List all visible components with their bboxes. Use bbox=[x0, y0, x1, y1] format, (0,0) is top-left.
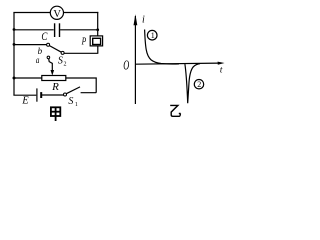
graph x-axis (t) with arrowhead bbox=[135, 62, 225, 75]
svg-text:R: R bbox=[51, 81, 59, 93]
wire: battery to S1 bbox=[42, 94, 64, 96]
svg-text:t: t bbox=[220, 64, 223, 74]
curve 2 (discharge current spike, negative) bbox=[185, 64, 200, 104]
graph y-axis (i) with arrowhead bbox=[134, 14, 146, 104]
wire: contact a lead down to rheostat wiper (arrow) bbox=[49, 59, 54, 76]
switch S1 bbox=[64, 87, 81, 108]
wire: top rail left segment bbox=[13, 12, 50, 14]
wire: capacitor row right bbox=[60, 29, 98, 31]
svg-text:E: E bbox=[21, 95, 29, 106]
wire: S2 pole to P box bottom bbox=[64, 46, 98, 54]
wire: bottom left (corner to battery) bbox=[13, 94, 36, 96]
wire: right vertical rail (top corner to P box) bbox=[97, 12, 99, 36]
wire: top rail right segment bbox=[64, 12, 99, 14]
label 甲 (drawn glyph) bbox=[51, 107, 60, 121]
wire: R row right, down right rail to S1 row bbox=[66, 77, 96, 92]
resistor P (boxed element) bbox=[81, 36, 103, 47]
svg-text:S: S bbox=[68, 96, 73, 107]
svg-text:i: i bbox=[142, 14, 145, 25]
capacitor C bbox=[41, 23, 59, 43]
label circled 1 bbox=[147, 30, 157, 40]
wire: capacitor row left bbox=[14, 29, 54, 31]
svg-text:1: 1 bbox=[75, 102, 78, 108]
svg-text:C: C bbox=[41, 31, 47, 43]
wire: R row left bbox=[14, 77, 42, 79]
junction: left rail / b row bbox=[13, 43, 16, 46]
svg-text:O: O bbox=[123, 58, 129, 73]
label 乙 (drawn glyph) bbox=[170, 105, 180, 116]
wire: b row (left rail to contact b) bbox=[14, 44, 47, 46]
svg-text:V: V bbox=[53, 9, 61, 20]
voltmeter V bbox=[50, 6, 63, 20]
svg-text:S: S bbox=[58, 55, 63, 66]
svg-text:2: 2 bbox=[64, 61, 67, 67]
junction: left rail / capacitor row bbox=[13, 28, 16, 31]
wire: left vertical rail bbox=[13, 13, 15, 96]
junction: right rail / capacitor row bbox=[96, 28, 99, 31]
switch S2 (SPDT: contacts a, b) bbox=[36, 43, 67, 67]
svg-text:2: 2 bbox=[197, 80, 201, 89]
battery E bbox=[21, 88, 41, 106]
svg-text:1: 1 bbox=[151, 31, 155, 40]
curve 1 (charging current spike, positive) bbox=[145, 30, 179, 65]
label circled 2 bbox=[194, 80, 203, 90]
junction: left rail / R row bbox=[13, 77, 16, 80]
resistor R (rheostat box) bbox=[42, 76, 66, 94]
svg-text:P: P bbox=[81, 36, 87, 47]
svg-text:a: a bbox=[36, 55, 40, 65]
